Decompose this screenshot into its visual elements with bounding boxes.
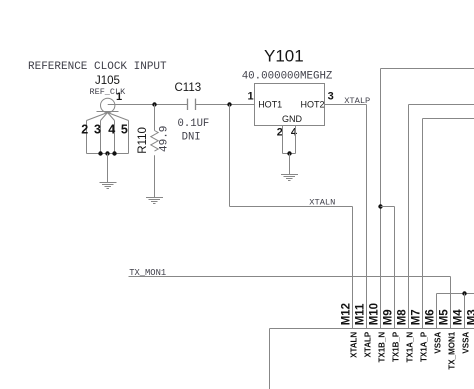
wire branch to pin M9 — [381, 206, 395, 208]
wire TX1A_P down to pin M7 — [422, 119, 424, 329]
wire R110 bottom lead — [154, 155, 156, 197]
junction node pins 2/4 — [287, 151, 291, 155]
svg-text:M5: M5 — [439, 309, 451, 326]
connector J105 pin 5 wire — [128, 121, 130, 154]
svg-text:3: 3 — [94, 122, 101, 136]
ground (J105 shield) — [100, 183, 117, 189]
wire Y101 pin 4 stub — [295, 126, 297, 154]
svg-text:DNI: DNI — [182, 132, 201, 144]
svg-text:GND: GND — [282, 114, 303, 124]
wire XTALP down to pin M11 — [366, 105, 368, 329]
connector J105 body circle — [101, 98, 115, 112]
svg-text:REFERENCE CLOCK INPUT: REFERENCE CLOCK INPUT — [28, 61, 167, 73]
connector J105 pin 2 wire — [86, 121, 88, 154]
wire XTALN vertical from tap — [229, 105, 231, 207]
wire VSSA down to pin M6 — [436, 294, 438, 329]
svg-text:0.1UF: 0.1UF — [178, 118, 210, 130]
ground (R110) — [146, 198, 163, 204]
junction node VSSA at M4 — [462, 291, 466, 295]
connector J105 pin 4 wire — [114, 121, 116, 154]
wire Y101 to ground — [289, 154, 291, 175]
svg-text:1: 1 — [248, 90, 254, 102]
svg-text:M4: M4 — [453, 309, 465, 326]
svg-text:TX1B_N: TX1B_N — [377, 332, 386, 363]
svg-text:4: 4 — [291, 126, 298, 138]
svg-text:J105: J105 — [95, 75, 120, 87]
svg-text:TX1A_P: TX1A_P — [419, 331, 428, 362]
svg-text:C113: C113 — [175, 82, 202, 94]
wire TX1B_N down to pin M10 — [380, 69, 382, 329]
svg-text:TX1A_N: TX1A_N — [405, 332, 414, 363]
junction node XTALN tap — [227, 102, 231, 106]
svg-text:XTALN: XTALN — [349, 332, 358, 358]
capacitor C113 right plate — [195, 99, 197, 110]
wire TX1B_N horizontal from right edge — [381, 68, 474, 70]
wire down to pin M9 — [394, 207, 396, 329]
svg-text:40.000000MEGHZ: 40.000000MEGHZ — [242, 70, 333, 82]
wire TX1A_N down to pin M8 — [408, 105, 410, 329]
svg-text:VSSA: VSSA — [433, 332, 442, 354]
svg-text:TX1B_P: TX1B_P — [391, 331, 400, 362]
junction on shield bus — [105, 151, 109, 155]
wire XTALN down to pin M12 — [352, 207, 354, 329]
svg-text:TX_MON1: TX_MON1 — [447, 331, 456, 369]
wire TX_MON1 horizontal — [129, 276, 451, 278]
connector J105 fan wires to shield pins — [87, 113, 129, 121]
wire R110 top lead — [154, 105, 156, 131]
connector J105 pin 3 wire — [100, 121, 102, 154]
svg-text:M6: M6 — [425, 309, 437, 325]
ground (Y101) — [281, 175, 298, 181]
svg-text:M11: M11 — [355, 303, 367, 325]
wire VSSA down to pin M4 — [464, 294, 466, 329]
svg-text:M12: M12 — [341, 303, 353, 325]
wire XTALN horizontal — [230, 206, 353, 208]
svg-text:M8: M8 — [397, 309, 409, 326]
junction node R110 tap — [152, 102, 156, 106]
svg-text:1: 1 — [116, 91, 122, 103]
wire VSSA jumper horizontal — [437, 293, 474, 295]
svg-text:R110: R110 — [137, 127, 149, 154]
wire REF_CLK: J105 pin1 to C113 left plate — [108, 104, 188, 106]
junction node TX1B branch — [378, 204, 382, 208]
IC left edge — [269, 329, 271, 389]
svg-text:HOT1: HOT1 — [258, 100, 282, 110]
shield bus wire — [87, 153, 129, 155]
junction on shield bus — [112, 151, 116, 155]
svg-text:3: 3 — [328, 90, 334, 102]
wire XTALP from Y101 pin 3 — [325, 104, 367, 106]
svg-text:VSSA: VSSA — [461, 332, 470, 354]
wire joining pins 2 and 4 — [283, 153, 296, 155]
svg-text:2: 2 — [277, 126, 283, 138]
svg-text:4: 4 — [108, 122, 115, 136]
svg-text:M10: M10 — [369, 303, 381, 325]
svg-text:XTALP: XTALP — [363, 331, 372, 357]
wire TX_MON1 down to pin M5 — [450, 277, 452, 329]
svg-text:M9: M9 — [383, 309, 395, 325]
svg-text:5: 5 — [121, 122, 128, 136]
junction on shield bus — [98, 151, 102, 155]
wire TX1A_P horizontal from right edge — [423, 118, 474, 120]
svg-text:Y101: Y101 — [264, 47, 304, 66]
wire C113 to Y101 pin 1 — [196, 104, 255, 106]
capacitor C113 left plate — [187, 99, 189, 110]
wire shield to ground — [107, 154, 109, 183]
svg-text:M7: M7 — [411, 309, 423, 325]
svg-text:2: 2 — [81, 122, 88, 136]
crystal Y101 body — [255, 84, 325, 126]
IC top edge — [270, 328, 474, 330]
resistor R110 body — [151, 131, 158, 152]
svg-text:49.9: 49.9 — [159, 126, 171, 152]
connector J105 shield bar — [97, 111, 119, 113]
svg-text:HOT2: HOT2 — [301, 100, 325, 110]
svg-text:M3: M3 — [467, 309, 474, 325]
wire TX1A_N horizontal from right edge — [409, 104, 474, 106]
wire Y101 pin 2 stub — [282, 126, 284, 154]
